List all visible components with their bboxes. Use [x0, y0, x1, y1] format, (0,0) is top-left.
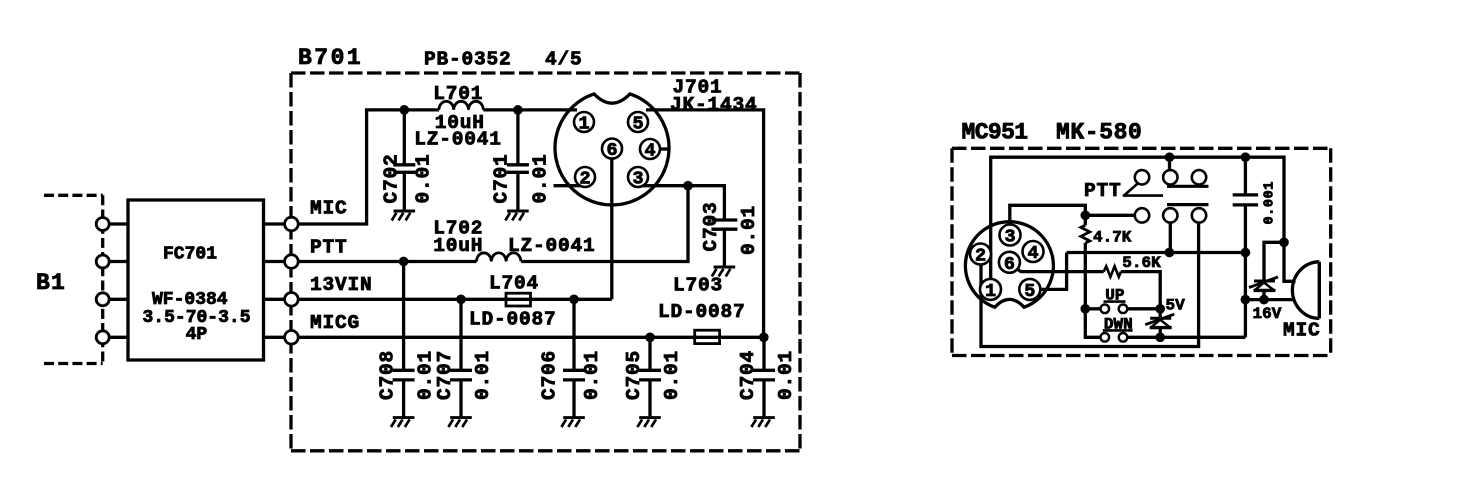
- svg-text:PB-0352: PB-0352: [424, 48, 512, 70]
- svg-text:0.001: 0.001: [1263, 181, 1278, 225]
- junction: [759, 332, 769, 342]
- svg-text:4: 4: [1027, 243, 1038, 264]
- ground C704: [751, 418, 774, 427]
- svg-text:B701: B701: [298, 45, 363, 71]
- connector MC951 plug body with keyway notch: [965, 222, 1053, 308]
- svg-text:C708: C708: [377, 350, 399, 400]
- svg-text:MIC: MIC: [310, 198, 348, 220]
- svg-text:5: 5: [1024, 281, 1035, 302]
- junction: [513, 105, 523, 115]
- underline DWN: [1103, 329, 1133, 332]
- svg-text:6: 6: [1004, 254, 1015, 275]
- connector B1 dashed box: [44, 195, 103, 363]
- inductor L703: [695, 330, 720, 343]
- pin 1 J701: [574, 112, 594, 132]
- svg-text:5: 5: [632, 114, 643, 135]
- junction: [1241, 295, 1251, 305]
- svg-text:4P: 4P: [186, 325, 208, 345]
- switch PTT contacts bottom: [1135, 208, 1149, 222]
- wire MICG net: [298, 336, 764, 339]
- svg-text:4/5: 4/5: [545, 48, 583, 70]
- svg-text:5.6K: 5.6K: [1122, 254, 1161, 272]
- underline UP: [1104, 300, 1126, 303]
- pin 6 J701: [602, 139, 622, 159]
- wire switch lower-middle riser: [1169, 223, 1172, 253]
- pin 5 MC951: [1019, 279, 1040, 300]
- wire jog to 16V zener: [1264, 242, 1284, 280]
- svg-text:MK-580: MK-580: [1056, 120, 1142, 146]
- resistor 4.7K: [1081, 225, 1090, 243]
- pin 2 J701: [575, 167, 595, 187]
- svg-text:C703: C703: [700, 201, 722, 251]
- svg-text:10uH: 10uH: [433, 235, 483, 257]
- capacitor C701: [507, 110, 529, 210]
- svg-text:L704: L704: [489, 273, 539, 295]
- svg-text:13VIN: 13VIN: [310, 274, 373, 296]
- svg-text:3: 3: [632, 169, 643, 190]
- svg-text:FC701: FC701: [163, 244, 217, 264]
- svg-text:6: 6: [606, 140, 617, 161]
- wire pin5 to C704: [646, 110, 764, 337]
- svg-text:2: 2: [579, 169, 590, 190]
- svg-text:L703: L703: [673, 275, 723, 297]
- wire UP-DWN left link: [1085, 309, 1100, 338]
- switch PTT lever: [1123, 184, 1163, 196]
- pin 2 MC951: [970, 244, 991, 265]
- svg-text:LZ-0041: LZ-0041: [508, 235, 596, 257]
- wire PTT top stub: [1168, 157, 1171, 170]
- capacitor C702: [393, 110, 415, 210]
- svg-text:PTT: PTT: [1084, 180, 1122, 202]
- wire DWN row: [1127, 336, 1245, 339]
- inductor L702: [477, 253, 521, 262]
- wire 16V row to speaker: [1245, 298, 1293, 301]
- pin 5 J701: [628, 112, 648, 132]
- switch PTT contacts top: [1135, 170, 1149, 184]
- ground C701: [505, 211, 528, 220]
- zener D 16V: [1249, 277, 1278, 290]
- zener D 5V: [1159, 309, 1162, 338]
- svg-text:4: 4: [644, 141, 655, 162]
- capacitor C704: [753, 337, 775, 417]
- junction: [569, 294, 579, 304]
- svg-text:16V: 16V: [1253, 305, 1282, 323]
- pin 1 MC951: [980, 279, 1001, 300]
- svg-text:C705: C705: [623, 350, 645, 400]
- wire pin2 ground rail: [981, 223, 1199, 347]
- junction: [1080, 304, 1090, 314]
- svg-text:C707: C707: [434, 350, 456, 400]
- connector J701 body with keyway notch: [555, 94, 669, 205]
- svg-text:MICG: MICG: [310, 312, 360, 334]
- wire pin6 to 5.6K: [1016, 268, 1104, 271]
- resistor 5.6K: [1104, 266, 1121, 277]
- junction: [399, 257, 409, 267]
- svg-text:0.01: 0.01: [413, 153, 435, 203]
- svg-text:0.01: 0.01: [775, 350, 797, 400]
- B701 edge pin circles: [285, 217, 299, 231]
- junction: [456, 294, 466, 304]
- svg-text:L701: L701: [433, 83, 483, 105]
- svg-text:MC951: MC951: [962, 120, 1028, 146]
- pin 3 MC951: [1000, 225, 1021, 246]
- ground C705: [637, 418, 660, 427]
- svg-text:PTT: PTT: [310, 236, 348, 258]
- board B701 dashed border: [291, 73, 800, 451]
- svg-text:1: 1: [578, 114, 589, 135]
- capacitor 0.001: [1233, 157, 1258, 337]
- wire pin5 riser: [1038, 253, 1067, 290]
- svg-text:C702: C702: [381, 153, 403, 203]
- wire pin2 stub: [554, 184, 581, 187]
- svg-text:1: 1: [985, 281, 996, 302]
- svg-text:LZ-0041: LZ-0041: [414, 129, 502, 151]
- capacitor C706: [563, 299, 585, 417]
- junction: [399, 105, 409, 115]
- svg-text:MIC: MIC: [1283, 320, 1321, 342]
- wire bus y252: [1067, 251, 1246, 254]
- svg-text:0.01: 0.01: [530, 153, 552, 203]
- inductor L701: [439, 101, 483, 110]
- wire pin3 to PTT common: [1010, 205, 1086, 230]
- svg-text:B1: B1: [36, 270, 66, 296]
- wire pin1 to top rail: [991, 157, 1296, 283]
- junction: [1155, 332, 1165, 342]
- svg-text:0.01: 0.01: [472, 350, 494, 400]
- junction: [683, 181, 693, 191]
- svg-text:C704: C704: [737, 350, 759, 400]
- svg-text:WF-0384: WF-0384: [152, 290, 228, 310]
- B1 pin circles: [96, 218, 109, 231]
- junction: [1241, 152, 1251, 162]
- inductor L704: [506, 293, 531, 306]
- junction: [1279, 237, 1289, 247]
- speaker MIC element: [1318, 262, 1321, 319]
- ground C706: [561, 418, 584, 427]
- wire PTT lower-left stub: [1085, 214, 1135, 217]
- ground C708: [391, 418, 414, 427]
- junction: [1165, 152, 1175, 162]
- svg-text:3: 3: [1004, 227, 1015, 248]
- wire 5.6K to UP row: [1121, 272, 1160, 309]
- svg-text:LD-0087: LD-0087: [658, 301, 746, 323]
- wire 4.7K down to UP row: [1084, 243, 1087, 309]
- switch UP contacts: [1101, 305, 1110, 314]
- mic unit MC951 dashed border: [952, 148, 1331, 355]
- wire pin4 stub: [658, 147, 669, 150]
- junction: [1259, 295, 1269, 305]
- connector FC701 box: [128, 200, 264, 360]
- wires B1 to FC701: [109, 224, 128, 337]
- junction: [1080, 210, 1090, 220]
- capacitor C708: [393, 262, 415, 418]
- capacitor C707: [450, 299, 472, 417]
- pin 6 MC951: [999, 252, 1020, 273]
- wire 13VIN net: [298, 150, 612, 299]
- switch PTT bars: [1167, 186, 1209, 204]
- ground C703: [712, 267, 735, 276]
- pin 4 J701: [640, 139, 660, 159]
- capacitor C703: [711, 220, 737, 266]
- junction: [1155, 304, 1165, 314]
- svg-text:0.01: 0.01: [581, 350, 603, 400]
- svg-text:C701: C701: [491, 153, 513, 203]
- junction: [645, 332, 655, 342]
- svg-text:4.7K: 4.7K: [1093, 228, 1132, 246]
- ground C707: [448, 418, 471, 427]
- svg-text:2: 2: [975, 246, 986, 267]
- pin 3 J701: [628, 167, 648, 187]
- svg-text:LD-0087: LD-0087: [469, 308, 557, 330]
- ground C702: [392, 211, 415, 220]
- svg-text:0.01: 0.01: [738, 205, 760, 255]
- svg-text:0.01: 0.01: [661, 350, 683, 400]
- switch DWN contacts: [1101, 333, 1110, 342]
- wire MIC net: [298, 110, 577, 224]
- wire PTT net: [298, 186, 724, 262]
- svg-text:C706: C706: [539, 350, 561, 400]
- wire UP row: [1085, 307, 1160, 310]
- junction: [1165, 248, 1175, 258]
- svg-text:5V: 5V: [1166, 297, 1186, 315]
- capacitor C705: [639, 337, 661, 417]
- wires FC701 to B701: [264, 224, 285, 337]
- junction: [1241, 248, 1251, 258]
- pin 4 MC951: [1023, 241, 1044, 262]
- svg-text:JK-1434: JK-1434: [670, 94, 758, 116]
